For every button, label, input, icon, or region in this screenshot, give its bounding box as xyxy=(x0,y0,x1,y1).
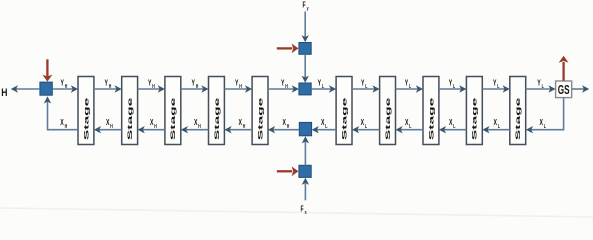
label Y_L #1 xyxy=(318,79,325,89)
wire: X stream segment 9 (right to left) xyxy=(439,126,467,133)
svg-text:X: X xyxy=(494,119,498,127)
svg-text:L: L xyxy=(409,83,411,89)
wire: Y stream segment 9 (left to right) xyxy=(396,85,424,92)
label F_y (top feed) xyxy=(303,2,309,11)
label X_H #5 xyxy=(239,119,246,129)
label Y_H #1 xyxy=(61,79,68,89)
svg-text:Y: Y xyxy=(361,79,365,87)
wire: outlet arrow leaving GS to the right xyxy=(572,85,590,92)
red feed arrow into bottom feed square xyxy=(277,166,299,176)
stage box 6 xyxy=(336,77,352,145)
svg-text:L: L xyxy=(322,83,324,89)
red feed arrow down into H square xyxy=(43,59,53,81)
label Y_L #4 xyxy=(449,79,456,89)
svg-text:X: X xyxy=(150,119,154,127)
svg-text:Y: Y xyxy=(405,79,409,87)
node: center X-stream square xyxy=(299,122,311,135)
wire: Y stream segment 1 (left to right) xyxy=(52,85,78,92)
wire: X stream segment 5 (right to left) xyxy=(268,126,299,133)
wire: bottom feed square up into X square xyxy=(302,136,309,165)
svg-text:Y: Y xyxy=(61,79,65,87)
svg-text:Stage: Stage xyxy=(169,97,177,140)
stage box 10 xyxy=(510,77,526,145)
svg-text:X: X xyxy=(106,119,110,127)
svg-text:Y: Y xyxy=(235,79,239,87)
wire: Y stream segment 5 (left to right) xyxy=(224,85,252,92)
svg-text:X: X xyxy=(239,119,243,127)
svg-text:Stage: Stage xyxy=(384,97,392,140)
wire: Y stream segment 6 (left to right) xyxy=(268,85,299,92)
svg-text:Y: Y xyxy=(192,79,196,87)
label Y_H #3 xyxy=(148,79,155,89)
wire: product arrow leaving H square to the left xyxy=(11,85,40,92)
svg-text:L: L xyxy=(365,83,367,89)
svg-text:Y: Y xyxy=(449,79,453,87)
label Y_L #2 xyxy=(361,79,368,89)
wire: X stream segment 7 (right to left) xyxy=(352,126,380,133)
svg-text:Stage: Stage xyxy=(126,97,134,140)
svg-text:Stage: Stage xyxy=(340,97,348,140)
svg-text:F: F xyxy=(301,206,304,214)
label Y_H #4 xyxy=(192,79,199,89)
label X_H #1 xyxy=(60,119,67,129)
label X_L #3 xyxy=(405,119,412,129)
svg-text:L: L xyxy=(542,83,544,89)
wire: Y stream segment 8 (left to right) xyxy=(352,85,380,92)
wire: Y stream segment 7 (left to right) xyxy=(311,85,336,92)
wire: X stream segment 10 (right to left) xyxy=(482,126,510,133)
svg-text:Stage: Stage xyxy=(213,97,221,140)
svg-text:Stage: Stage xyxy=(471,97,479,140)
svg-text:Y: Y xyxy=(148,79,152,87)
label Y_L #5 xyxy=(493,79,500,89)
wire: X stream segment 2 (right to left) xyxy=(138,126,165,133)
label X_H #2 xyxy=(106,119,113,129)
svg-text:Stage: Stage xyxy=(514,97,522,140)
label X_H #6 xyxy=(283,119,290,129)
svg-text:X: X xyxy=(449,119,453,127)
svg-text:Y: Y xyxy=(105,79,109,87)
wire: X return from GS bottom into stage 10 xyxy=(526,98,564,134)
label X_L #6 xyxy=(540,119,547,129)
wire: X stream segment 3 (right to left) xyxy=(181,126,209,133)
svg-text:L: L xyxy=(325,123,327,129)
label X_L #1 xyxy=(321,119,328,129)
stage box 5 xyxy=(252,77,268,145)
wire: top feed square down into Y square xyxy=(302,54,309,83)
svg-text:L: L xyxy=(409,123,411,129)
wire: Y stream segment 2 (left to right) xyxy=(94,85,122,92)
wire: Fy feed line down into top feed square xyxy=(302,12,309,43)
svg-text:X: X xyxy=(361,119,365,127)
stage box 8 xyxy=(423,77,439,145)
label X_L #4 xyxy=(449,119,456,129)
wire: Y stream segment 11 (left to right) xyxy=(482,85,510,92)
red arrow up out of GS xyxy=(559,56,569,81)
label Y_L #6 xyxy=(537,79,544,89)
svg-text:L: L xyxy=(453,83,455,89)
svg-text:GS: GS xyxy=(558,83,570,97)
svg-text:X: X xyxy=(60,119,64,127)
wire: Y stream segment 3 (left to right) xyxy=(138,85,165,92)
label F_x (bottom feed) xyxy=(301,206,307,215)
label Y_H #6 xyxy=(281,79,288,89)
wire: X stream segment 6 (right to left) xyxy=(312,126,337,133)
svg-text:y: y xyxy=(307,5,309,11)
stage box 9 xyxy=(466,77,482,145)
stage box 7 xyxy=(380,77,396,145)
wire: X stream segment 1 (right to left) xyxy=(94,126,122,133)
red feed arrow into top feed square xyxy=(277,44,299,54)
node: top feed square (Fy inlet) xyxy=(299,43,311,55)
wire: Y stream segment 12 (left to right) xyxy=(526,85,556,92)
svg-text:L: L xyxy=(365,123,367,129)
svg-text:Y: Y xyxy=(318,79,322,87)
wire: X stream segment 8 (right to left) xyxy=(396,126,424,133)
svg-text:L: L xyxy=(544,123,546,129)
wire: X return from stage 1 up into H square xyxy=(44,96,78,129)
wire: Y stream segment 4 (left to right) xyxy=(181,85,209,92)
svg-text:X: X xyxy=(405,119,409,127)
svg-text:X: X xyxy=(283,119,287,127)
wire: X stream segment 4 (right to left) xyxy=(224,126,252,133)
node: H-end mixing square xyxy=(40,82,52,95)
stage box 1 xyxy=(78,77,94,145)
stage box 3 xyxy=(165,77,181,145)
svg-text:H: H xyxy=(1,87,7,99)
label Y_H #2 xyxy=(105,79,112,89)
svg-text:Stage: Stage xyxy=(427,97,435,140)
svg-text:Stage: Stage xyxy=(256,97,264,140)
label X_L #5 xyxy=(494,119,501,129)
label X_H #3 xyxy=(150,119,157,129)
wire: Y stream segment 10 (left to right) xyxy=(439,85,467,92)
svg-text:L: L xyxy=(497,83,499,89)
svg-text:L: L xyxy=(453,123,455,129)
label X_L #2 xyxy=(361,119,368,129)
svg-text:Stage: Stage xyxy=(82,97,90,140)
faint page-edge line xyxy=(0,208,593,217)
node: bottom feed square (Fx inlet) xyxy=(299,165,311,177)
stage box 4 xyxy=(209,77,225,145)
label Y_H #5 xyxy=(235,79,242,89)
svg-text:F: F xyxy=(303,2,306,10)
svg-text:Y: Y xyxy=(281,79,285,87)
wire: Fx feed line up into bottom feed square xyxy=(302,178,309,201)
node: center Y-stream square xyxy=(299,83,311,95)
svg-text:X: X xyxy=(540,119,544,127)
stage box 2 xyxy=(122,77,138,145)
svg-text:L: L xyxy=(498,123,500,129)
label Y_L #3 xyxy=(405,79,412,89)
label X_H #4 xyxy=(194,119,201,129)
svg-text:Y: Y xyxy=(537,79,541,87)
svg-text:X: X xyxy=(194,119,198,127)
svg-text:Y: Y xyxy=(493,79,497,87)
GS box xyxy=(556,81,572,98)
svg-text:x: x xyxy=(305,209,307,215)
svg-text:X: X xyxy=(321,119,325,127)
